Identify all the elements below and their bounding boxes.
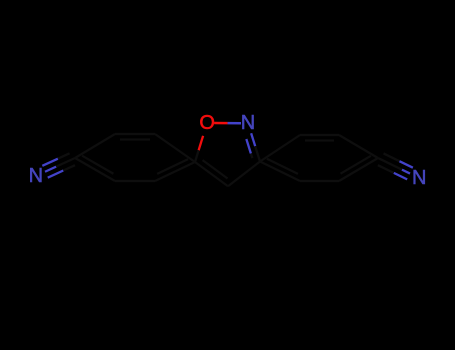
svg-text:N: N [29, 165, 43, 187]
svg-text:N: N [412, 167, 426, 189]
svg-text:O: O [199, 112, 215, 134]
svg-text:N: N [241, 112, 255, 134]
